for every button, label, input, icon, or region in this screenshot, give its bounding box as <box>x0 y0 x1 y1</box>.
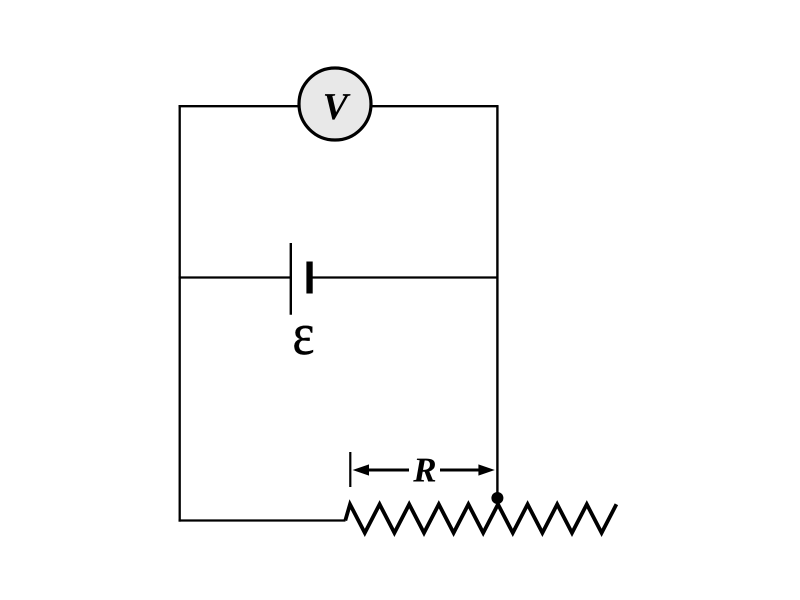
svg-text:V: V <box>323 86 351 128</box>
svg-text:R: R <box>412 451 436 490</box>
svg-text:ε: ε <box>292 301 314 367</box>
